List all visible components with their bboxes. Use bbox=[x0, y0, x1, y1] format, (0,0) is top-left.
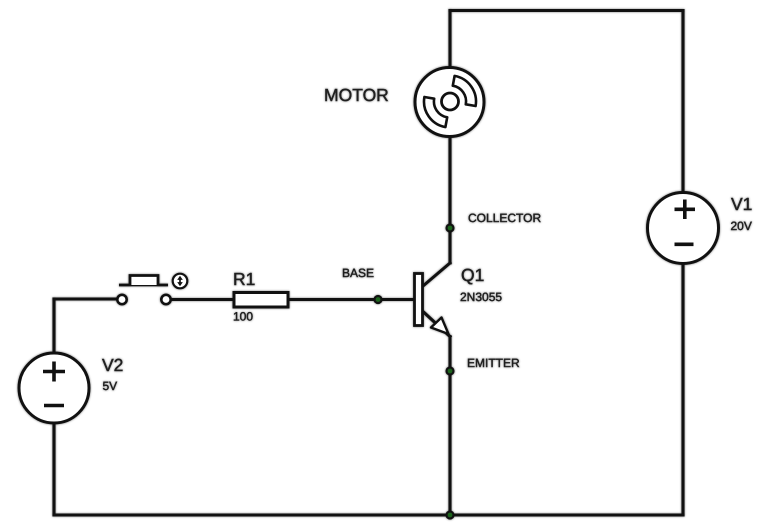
source V2 plus sign bbox=[43, 362, 65, 382]
resistor R1 body bbox=[234, 293, 288, 308]
node bottom rail junction dot bbox=[445, 510, 454, 519]
node emitter junction dot bbox=[445, 366, 454, 375]
svg-text:Q1: Q1 bbox=[461, 265, 484, 285]
switch S1 actuator bar bbox=[119, 284, 168, 287]
wire collector diagonal into Q1 bbox=[423, 263, 450, 286]
motor blade upper-right bbox=[453, 76, 476, 106]
source V2 circle bbox=[19, 353, 89, 423]
svg-text:BASE: BASE bbox=[342, 266, 374, 280]
switch S1 push indicator circle bbox=[173, 274, 188, 289]
svg-text:EMITTER: EMITTER bbox=[467, 356, 520, 370]
source V1 plus sign bbox=[675, 200, 696, 220]
node collector junction dot bbox=[445, 223, 454, 232]
svg-text:V1: V1 bbox=[731, 194, 752, 214]
wire motor top lead bbox=[448, 11, 451, 68]
wire emitter vertical to bottom rail bbox=[448, 337, 451, 516]
source V1 minus sign bbox=[675, 243, 694, 247]
svg-text:2N3055: 2N3055 bbox=[460, 290, 502, 304]
wire bottom horizontal bbox=[54, 513, 683, 516]
motor hub circle bbox=[442, 93, 459, 110]
svg-text:R1: R1 bbox=[233, 269, 255, 289]
wire left vertical upper (V2 to corner) bbox=[52, 299, 55, 353]
wire emitter diagonal out of Q1 bbox=[423, 312, 450, 337]
wire switch right terminal to resistor R1 bbox=[171, 298, 234, 301]
wire resistor R1 to transistor base bar bbox=[288, 298, 414, 301]
source V2 minus sign bbox=[44, 404, 64, 408]
wire corner to switch left terminal bbox=[54, 297, 117, 300]
source V1 circle bbox=[648, 193, 719, 264]
svg-text:V2: V2 bbox=[102, 355, 123, 375]
transistor Q1 base bar bbox=[415, 274, 423, 326]
switch S1 button cap bbox=[130, 276, 158, 286]
switch S1 right terminal bbox=[161, 295, 170, 304]
wire motor bottom lead to collector bbox=[448, 137, 451, 263]
switch S1 left terminal bbox=[117, 295, 126, 304]
wire right vertical lower (V1 to bottom rail) bbox=[681, 264, 684, 515]
transistor Q1 emitter arrowhead bbox=[431, 318, 449, 335]
svg-text:20V: 20V bbox=[731, 219, 752, 233]
wire right vertical upper (top rail to V1) bbox=[681, 11, 684, 193]
svg-text:MOTOR: MOTOR bbox=[324, 85, 389, 105]
wire top horizontal bbox=[450, 9, 683, 12]
motor blade lower-left bbox=[424, 97, 447, 127]
svg-text:COLLECTOR: COLLECTOR bbox=[468, 211, 541, 225]
motor M1 body circle bbox=[415, 68, 484, 137]
node base junction dot bbox=[373, 295, 382, 304]
svg-text:100: 100 bbox=[233, 310, 253, 324]
svg-text:5V: 5V bbox=[103, 379, 118, 393]
wire left vertical (bottom rail to V2) bbox=[52, 423, 55, 515]
